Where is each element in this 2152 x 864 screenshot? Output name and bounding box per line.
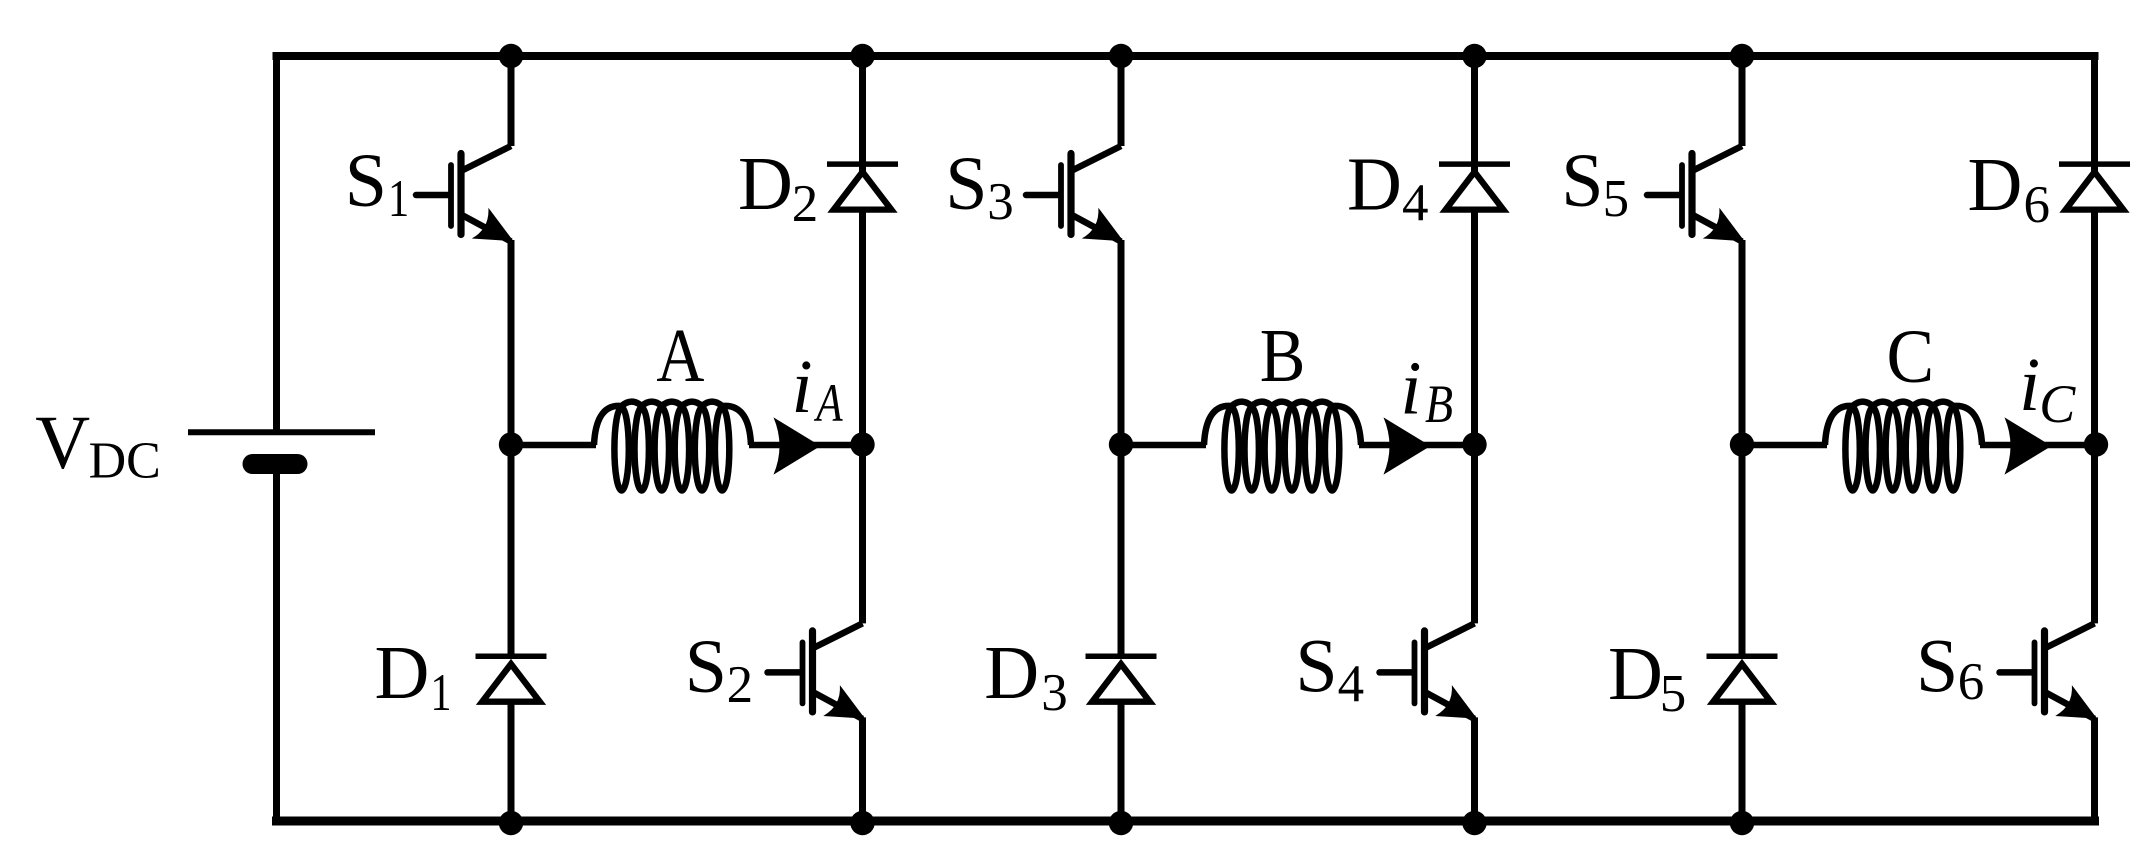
svg-text:5: 5 <box>1603 170 1630 228</box>
svg-text:B: B <box>1425 374 1453 434</box>
svg-text:4: 4 <box>1338 655 1365 713</box>
svg-text:S: S <box>345 139 387 223</box>
svg-text:2: 2 <box>727 656 754 714</box>
svg-text:S: S <box>1916 625 1958 709</box>
svg-text:S: S <box>1561 139 1603 223</box>
svg-text:A: A <box>814 372 844 433</box>
svg-text:A: A <box>656 314 704 398</box>
svg-text:D: D <box>1968 143 2023 227</box>
svg-text:D: D <box>984 631 1039 715</box>
svg-text:1: 1 <box>430 664 451 723</box>
svg-text:1: 1 <box>388 170 409 229</box>
svg-text:D: D <box>1608 632 1663 716</box>
svg-text:i: i <box>792 345 813 429</box>
svg-text:i: i <box>1400 347 1421 431</box>
svg-text:2: 2 <box>792 175 819 233</box>
svg-text:S: S <box>685 625 727 709</box>
svg-text:DC: DC <box>89 433 161 490</box>
svg-text:5: 5 <box>1660 665 1687 723</box>
svg-text:D: D <box>738 142 793 226</box>
svg-text:D: D <box>1347 143 1402 227</box>
svg-text:C: C <box>2039 374 2076 434</box>
svg-text:B: B <box>1260 314 1306 398</box>
svg-text:S: S <box>1295 625 1337 709</box>
svg-text:V: V <box>35 401 90 485</box>
svg-text:3: 3 <box>1041 664 1068 722</box>
svg-text:S: S <box>945 142 987 226</box>
svg-text:6: 6 <box>2024 176 2051 234</box>
svg-text:4: 4 <box>1402 174 1429 232</box>
svg-text:i: i <box>2019 343 2040 427</box>
svg-text:D: D <box>375 631 430 715</box>
svg-text:C: C <box>1887 314 1935 398</box>
svg-text:3: 3 <box>987 173 1014 231</box>
svg-text:6: 6 <box>1958 653 1985 711</box>
